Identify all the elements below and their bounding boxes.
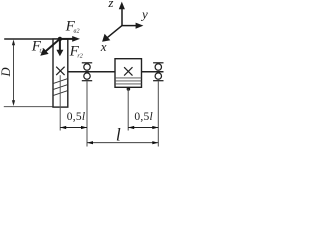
- wire extension line below bearing B1: [86, 81, 88, 146]
- coupling box cross mark: [124, 67, 132, 75]
- svg-text:0,5l: 0,5l: [67, 111, 86, 123]
- svg-text:r2: r2: [77, 53, 82, 59]
- dimension 0.5l right: [128, 126, 158, 129]
- wire extension line below bearing B2: [157, 81, 159, 146]
- svg-text:x: x: [100, 39, 107, 54]
- coupling box bottom lines: [115, 78, 142, 84]
- dimension D line: [12, 40, 15, 107]
- coordinate triad: y axis: [122, 23, 143, 29]
- svg-text:z: z: [107, 0, 113, 10]
- wire shaft segment gear to box: [68, 71, 115, 73]
- wire extension line below box: [127, 89, 129, 131]
- svg-text:y: y: [140, 6, 148, 21]
- svg-text:D: D: [0, 67, 13, 77]
- svg-text:a2: a2: [74, 29, 80, 35]
- wire bottom extension line of D: [4, 106, 53, 108]
- gear hatch lines: [53, 79, 68, 96]
- bearing B2 (right rolling bearing): [153, 63, 163, 81]
- svg-text:t2: t2: [40, 49, 45, 55]
- coupling box: [115, 59, 142, 88]
- node force application point (dot): [58, 37, 62, 41]
- gear cross mark (shaft axis): [56, 67, 64, 75]
- node pitch line (top extension of D): [4, 38, 68, 40]
- force arrow F_t2 (tangential, down-left diagonal): [40, 39, 60, 56]
- wire shaft segment box to right end: [142, 71, 164, 73]
- node box bottom dot: [127, 87, 131, 91]
- dimension 0.5l left: [60, 126, 87, 129]
- svg-text:l: l: [116, 124, 121, 144]
- coordinate triad: z axis: [119, 2, 125, 26]
- dimension l: [87, 141, 158, 144]
- gear (worm wheel) body: [53, 39, 68, 107]
- coordinate triad: x axis: [102, 26, 122, 42]
- force arrow F_a2 (axial, right): [60, 36, 80, 42]
- bearing B1 (left rolling bearing): [82, 63, 92, 81]
- svg-text:0,5l: 0,5l: [134, 111, 153, 123]
- force arrow F_r2 (radial, down): [56, 39, 63, 56]
- gear centerline / extension line: [59, 75, 61, 130]
